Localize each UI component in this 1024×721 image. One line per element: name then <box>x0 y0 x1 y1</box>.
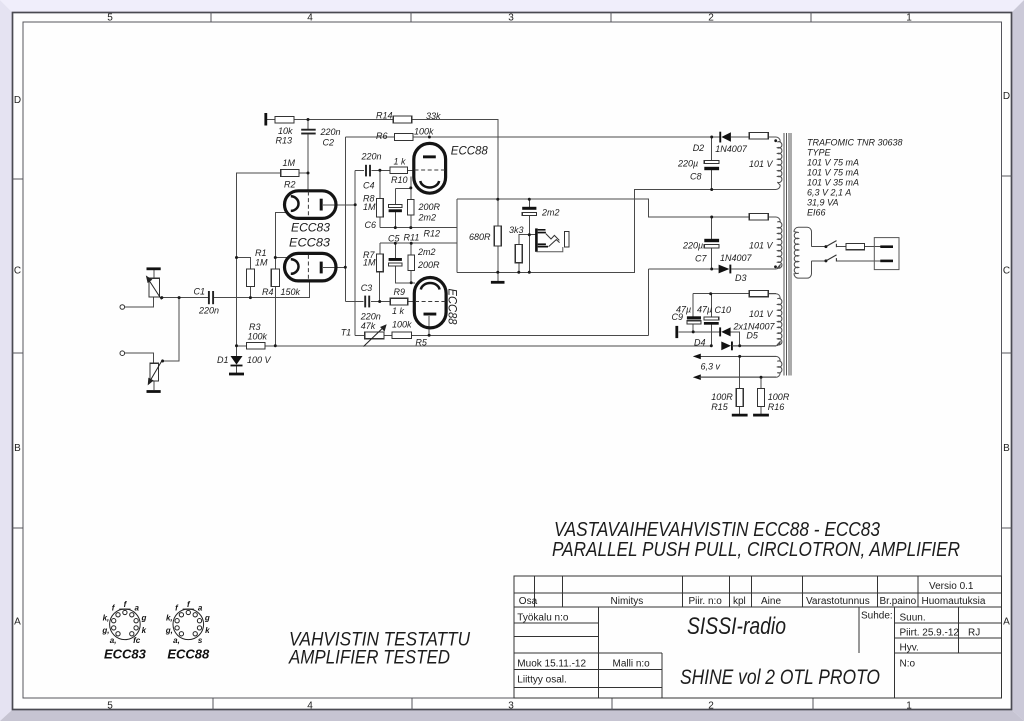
svg-text:101 V: 101 V <box>749 159 774 169</box>
svg-text:R3: R3 <box>249 322 261 332</box>
svg-text:1N4007: 1N4007 <box>720 253 753 263</box>
svg-text:N:o: N:o <box>900 659 916 670</box>
svg-text:5: 5 <box>107 701 113 712</box>
svg-text:AMPLIFIER TESTED: AMPLIFIER TESTED <box>288 647 450 669</box>
svg-text:47k: 47k <box>361 321 376 331</box>
svg-text:Br.paino: Br.paino <box>880 596 917 607</box>
svg-text:C7: C7 <box>695 254 707 264</box>
svg-text:100R: 100R <box>768 392 790 402</box>
svg-text:2m2: 2m2 <box>418 213 437 223</box>
svg-text:5: 5 <box>107 13 113 24</box>
svg-text:Osa: Osa <box>519 596 538 607</box>
svg-text:47µ: 47µ <box>697 305 712 315</box>
svg-text:31,9 VA: 31,9 VA <box>807 198 839 208</box>
svg-text:Piir. n:o: Piir. n:o <box>689 596 723 607</box>
svg-text:R13: R13 <box>276 136 293 146</box>
svg-text:2: 2 <box>708 13 714 24</box>
svg-text:220n: 220n <box>320 127 341 137</box>
svg-text:C9: C9 <box>672 312 684 322</box>
svg-text:2m2: 2m2 <box>417 247 436 257</box>
svg-text:T1: T1 <box>341 328 352 338</box>
svg-text:ECC83: ECC83 <box>104 647 147 662</box>
svg-text:Piirt. 25.9.-12: Piirt. 25.9.-12 <box>900 628 960 639</box>
svg-text:10k: 10k <box>278 126 293 136</box>
svg-text:100k: 100k <box>414 127 434 137</box>
svg-text:1 k: 1 k <box>392 306 405 316</box>
svg-text:Muok 15.11.-12: Muok 15.11.-12 <box>517 659 586 670</box>
svg-text:1 k: 1 k <box>394 157 407 167</box>
svg-text:C: C <box>1003 266 1010 277</box>
svg-text:220n: 220n <box>360 312 381 322</box>
svg-text:D5: D5 <box>746 331 758 341</box>
svg-text:k,: k, <box>166 614 173 623</box>
svg-text:Varastotunnus: Varastotunnus <box>806 596 870 607</box>
svg-text:A: A <box>1003 617 1010 628</box>
svg-text:3k3: 3k3 <box>509 225 524 235</box>
svg-text:a: a <box>198 604 203 613</box>
svg-text:k: k <box>205 626 210 635</box>
svg-text:k: k <box>142 626 147 635</box>
svg-text:A: A <box>14 617 21 628</box>
svg-text:Hyv.: Hyv. <box>900 643 919 654</box>
svg-text:Liittyy osal.: Liittyy osal. <box>517 675 566 686</box>
svg-text:g: g <box>204 614 210 623</box>
svg-text:C: C <box>14 266 21 277</box>
svg-text:D: D <box>1003 91 1010 102</box>
svg-text:220n: 220n <box>198 306 219 316</box>
svg-text:R15: R15 <box>711 402 729 412</box>
svg-text:6,3 V 2,1 A: 6,3 V 2,1 A <box>807 188 851 198</box>
svg-text:Työkalu n:o: Työkalu n:o <box>517 613 569 624</box>
svg-text:4: 4 <box>307 13 313 24</box>
svg-text:R9: R9 <box>394 287 406 297</box>
svg-text:k,: k, <box>103 614 110 623</box>
svg-text:1M: 1M <box>363 258 376 268</box>
svg-text:D4: D4 <box>694 338 706 348</box>
svg-text:1: 1 <box>906 701 912 712</box>
svg-text:1N4007: 1N4007 <box>715 144 748 154</box>
svg-text:200R: 200R <box>418 202 441 212</box>
svg-text:220n: 220n <box>361 152 382 162</box>
svg-text:2m2: 2m2 <box>541 208 560 218</box>
svg-text:PARALLEL PUSH PULL, CIRCLOTRON: PARALLEL PUSH PULL, CIRCLOTRON, AMPLIFIE… <box>552 538 960 561</box>
svg-text:R12: R12 <box>424 228 441 238</box>
svg-text:101 V 35 mA: 101 V 35 mA <box>807 178 859 188</box>
svg-text:D3: D3 <box>735 273 747 283</box>
svg-text:kpl: kpl <box>733 596 746 607</box>
svg-text:4: 4 <box>307 701 313 712</box>
svg-text:R14: R14 <box>376 111 393 121</box>
svg-text:C5: C5 <box>388 234 400 244</box>
svg-text:3: 3 <box>508 701 514 712</box>
svg-text:33k: 33k <box>426 111 441 121</box>
svg-text:R5: R5 <box>415 338 427 348</box>
svg-text:6,3 v: 6,3 v <box>701 362 721 372</box>
svg-text:C8: C8 <box>690 172 702 182</box>
svg-text:a,: a, <box>110 636 117 645</box>
svg-text:B: B <box>14 443 21 454</box>
svg-text:150k: 150k <box>281 287 301 297</box>
svg-text:C10: C10 <box>715 305 732 315</box>
svg-text:SISSI-radio: SISSI-radio <box>687 613 786 640</box>
svg-text:R6: R6 <box>376 131 388 141</box>
svg-text:101 V 75 mA: 101 V 75 mA <box>807 168 859 178</box>
svg-text:ECC88: ECC88 <box>167 647 210 662</box>
svg-text:R11: R11 <box>404 233 420 243</box>
svg-text:ECC83: ECC83 <box>291 221 330 235</box>
svg-text:R10: R10 <box>391 175 408 185</box>
svg-text:100k: 100k <box>248 332 268 342</box>
svg-text:Versio 0.1: Versio 0.1 <box>929 581 974 592</box>
svg-text:TYPE: TYPE <box>807 148 832 158</box>
svg-text:C4: C4 <box>363 181 375 191</box>
svg-text:101 V: 101 V <box>749 241 774 251</box>
svg-text:2: 2 <box>708 701 714 712</box>
svg-text:B: B <box>1003 443 1010 454</box>
svg-text:1: 1 <box>906 13 912 24</box>
svg-text:C3: C3 <box>361 283 373 293</box>
svg-text:ECC88: ECC88 <box>446 289 460 325</box>
svg-text:D1: D1 <box>217 355 229 365</box>
svg-text:R1: R1 <box>255 248 267 258</box>
svg-text:100 V: 100 V <box>247 355 272 365</box>
svg-text:Aine: Aine <box>761 596 781 607</box>
svg-text:C6: C6 <box>365 220 377 230</box>
svg-text:g: g <box>140 614 146 623</box>
svg-text:ECC88: ECC88 <box>451 144 488 158</box>
svg-text:1M: 1M <box>283 158 296 168</box>
svg-text:R4: R4 <box>262 287 274 297</box>
svg-text:R16: R16 <box>768 402 785 412</box>
svg-text:100k: 100k <box>392 320 412 330</box>
svg-text:Nimitys: Nimitys <box>611 596 644 607</box>
svg-text:Suun.: Suun. <box>900 613 926 624</box>
svg-text:220µ: 220µ <box>682 241 703 251</box>
svg-text:RJ: RJ <box>968 628 980 639</box>
svg-text:101 V: 101 V <box>749 309 774 319</box>
svg-text:C1: C1 <box>194 287 206 297</box>
svg-text:Huomautuksia: Huomautuksia <box>922 596 986 607</box>
svg-text:1M: 1M <box>255 258 268 268</box>
svg-text:680R: 680R <box>469 232 491 242</box>
svg-text:a,: a, <box>173 636 180 645</box>
svg-text:g,: g, <box>165 626 173 635</box>
svg-text:Malli n:o: Malli n:o <box>613 659 651 670</box>
svg-text:fc: fc <box>133 636 141 645</box>
svg-text:g,: g, <box>101 626 109 635</box>
svg-text:SHINE vol 2 OTL PROTO: SHINE vol 2 OTL PROTO <box>680 666 880 689</box>
svg-text:220µ: 220µ <box>677 159 698 169</box>
svg-text:100R: 100R <box>711 392 733 402</box>
svg-text:3: 3 <box>508 13 514 24</box>
svg-text:TRAFOMIC TNR 30638: TRAFOMIC TNR 30638 <box>807 138 903 148</box>
svg-text:ECC83: ECC83 <box>289 236 330 250</box>
svg-text:R2: R2 <box>284 180 296 190</box>
svg-text:Suhde:: Suhde: <box>861 611 893 622</box>
svg-text:1M: 1M <box>363 202 376 212</box>
svg-text:200R: 200R <box>417 260 440 270</box>
svg-text:D2: D2 <box>693 143 705 153</box>
svg-text:C2: C2 <box>323 138 335 148</box>
svg-text:101 V 75 mA: 101 V 75 mA <box>807 158 859 168</box>
svg-text:EI66: EI66 <box>807 208 826 218</box>
svg-text:a: a <box>134 604 139 613</box>
svg-text:s: s <box>198 636 203 645</box>
svg-text:D: D <box>14 95 21 106</box>
